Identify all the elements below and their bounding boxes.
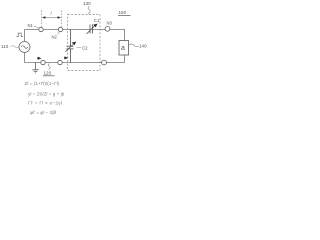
- svg-text:yl = Z0/Zl = g + jb: yl = Z0/Zl = g + jb: [28, 92, 65, 97]
- svg-text:a: a: [121, 45, 125, 52]
- svg-text:C2: C2: [82, 46, 88, 51]
- svg-text:N1: N1: [28, 23, 34, 28]
- svg-text:φl′ = φl − 2βl: φl′ = φl − 2βl: [30, 110, 56, 115]
- svg-text:Zl = (1+Γl)/(1−Γl): Zl = (1+Γl)/(1−Γl): [25, 81, 60, 86]
- svg-text:Γl′ = Γl × e−2γl: Γl′ = Γl × e−2γl: [28, 101, 62, 106]
- svg-text:150: 150: [119, 10, 127, 15]
- svg-text:N3: N3: [107, 21, 113, 26]
- svg-text:C1: C1: [94, 18, 100, 23]
- svg-text:l: l: [51, 11, 53, 16]
- svg-text:120: 120: [44, 71, 52, 76]
- svg-text:110: 110: [1, 44, 9, 49]
- svg-text:130: 130: [83, 1, 91, 6]
- svg-text:140: 140: [139, 44, 147, 49]
- svg-text:N2: N2: [52, 35, 58, 40]
